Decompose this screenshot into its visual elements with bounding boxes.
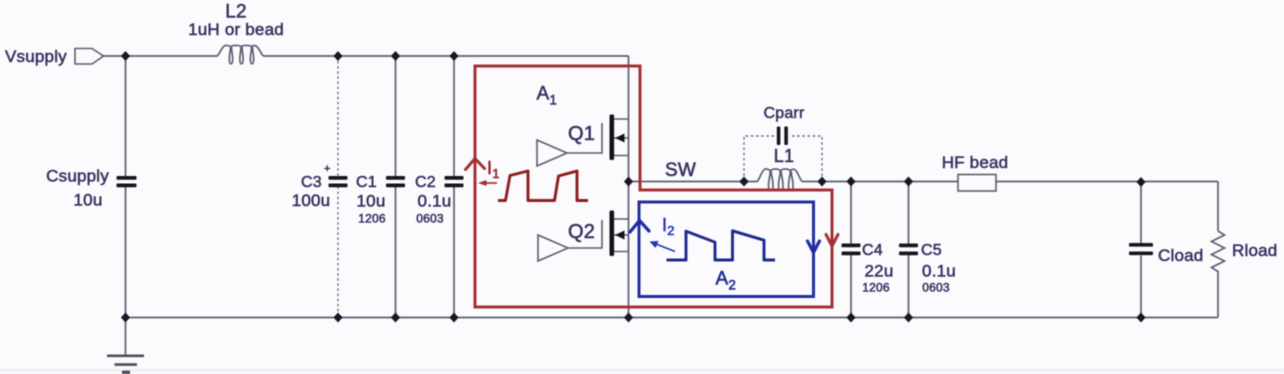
loop A1 red boundary [475, 66, 832, 307]
node C4 top [846, 177, 855, 187]
svg-text:I2: I2 [662, 215, 675, 238]
svg-text:C3: C3 [301, 174, 322, 191]
node C5 top [904, 177, 913, 187]
node C3 top [333, 51, 342, 61]
node C1 bottom [391, 313, 400, 323]
wire Cparr dashed branch [744, 136, 822, 176]
transistor Q2 leads [614, 219, 629, 252]
wire C1 vertical [395, 56, 397, 318]
svg-text:Vsupply: Vsupply [5, 47, 67, 66]
capacitor Cload plates [1129, 243, 1153, 255]
svg-text:0.1u: 0.1u [922, 262, 956, 281]
capacitor Csupply plates [117, 176, 137, 187]
node C1 top [391, 51, 400, 61]
svg-text:1206: 1206 [358, 212, 386, 226]
current I2 waveform [667, 231, 776, 260]
svg-text:22u: 22u [865, 262, 894, 281]
wire Q1-Q2 drain-source vertical [628, 56, 630, 318]
current I2 leader arrow [656, 244, 675, 252]
wire Cload vertical [1140, 183, 1142, 318]
wire C2 vertical [453, 56, 455, 318]
capacitor Cparr plates [777, 127, 788, 146]
wire HF bead to load [996, 181, 1218, 183]
loop A2 down arrow on right edge [808, 241, 820, 253]
connector Vsupply tag [75, 49, 104, 65]
wire top rail right of L2 [264, 55, 629, 57]
transistor Q1 channel bar [610, 115, 615, 161]
svg-text:10u: 10u [357, 192, 386, 211]
node C2 top [449, 51, 458, 61]
svg-text:100u: 100u [292, 191, 331, 210]
node C3 bottom [333, 313, 342, 323]
current I1 leader arrow [485, 182, 497, 184]
svg-text:HF bead: HF bead [942, 153, 1009, 172]
transistor Q2 (gate driver triangle) [538, 235, 568, 261]
node C2 bottom [449, 313, 458, 323]
transistor Q2 channel bar [610, 211, 615, 257]
capacitor C3 plates [329, 176, 348, 187]
capacitor C4 plates [842, 244, 861, 256]
svg-text:SW: SW [665, 160, 696, 181]
svg-text:L1: L1 [774, 146, 794, 166]
ground symbol [107, 356, 144, 373]
svg-text:C1: C1 [356, 174, 377, 191]
node Q2 source bottom [624, 313, 633, 323]
svg-text:A1: A1 [537, 84, 558, 108]
svg-text:+: + [324, 163, 331, 175]
wire C5 vertical [908, 182, 910, 318]
svg-text:0603: 0603 [922, 281, 950, 295]
wire L1 to HF bead [802, 181, 958, 183]
svg-text:1uH or bead: 1uH or bead [188, 20, 284, 39]
svg-text:Rload: Rload [1232, 241, 1277, 260]
wire Rload branch bottom [1217, 274, 1219, 318]
resistor HF bead body [958, 175, 996, 192]
wire input vertical x=125 [125, 56, 127, 318]
svg-text:I1: I1 [487, 158, 500, 181]
transistor Q1 (gate driver triangle) [537, 140, 567, 166]
svg-text:Q1: Q1 [568, 123, 595, 145]
loop A1 down arrow on right edge [826, 235, 838, 247]
wire top rail left of L2 [104, 55, 218, 57]
wire Rload branch top [1217, 182, 1219, 232]
svg-text:Cload: Cload [1158, 246, 1203, 265]
node C4 bottom [846, 313, 855, 323]
loop A2 up arrow on left edge [630, 221, 649, 233]
node C5 bottom [904, 313, 913, 323]
svg-text:Csupply: Csupply [46, 167, 109, 186]
node Cload bottom [1136, 313, 1145, 323]
capacitor C1 plates [386, 176, 405, 187]
svg-text:Cparr: Cparr [763, 105, 804, 122]
svg-text:1206: 1206 [862, 281, 890, 295]
transistor Q2 body arrow [615, 231, 625, 240]
svg-text:0603: 0603 [416, 212, 444, 226]
inductor L1 [757, 169, 802, 191]
loop A2 blue boundary [639, 202, 814, 297]
wire bottom ground rail [126, 317, 1219, 319]
node Vsupply junction [121, 51, 130, 61]
bottom edge strip [0, 369, 1284, 371]
svg-text:C5: C5 [921, 242, 942, 259]
capacitor C5 plates [899, 244, 918, 256]
wire ground stem [125, 318, 127, 356]
transistor Q1 leads [614, 119, 629, 156]
node ground junction [121, 313, 130, 323]
svg-text:C4: C4 [862, 242, 883, 259]
node L1 right [817, 177, 826, 187]
resistor Rload zigzag [1212, 231, 1225, 274]
loop A1 up arrow on left edge [466, 159, 485, 170]
transistor Q1 gate lead [567, 123, 602, 153]
svg-text:A2: A2 [716, 269, 737, 293]
svg-text:Q2: Q2 [568, 221, 595, 243]
wire SW node to L1 [629, 181, 758, 183]
transistor Q1 body arrow [615, 134, 625, 143]
transistor Q2 gate lead [568, 220, 602, 248]
current I1 waveform [498, 171, 588, 201]
node SW junction [624, 177, 633, 187]
node Cload top [1136, 177, 1145, 187]
node L1 left [739, 177, 748, 187]
svg-text:C2: C2 [415, 174, 436, 191]
capacitor C2 plates [445, 176, 464, 187]
svg-text:10u: 10u [74, 191, 103, 210]
inductor L2 [217, 45, 264, 63]
svg-text:0.1u: 0.1u [418, 192, 452, 211]
wire C4 vertical [850, 182, 852, 318]
wire C3 vertical (dashed, optional part) [337, 56, 339, 318]
